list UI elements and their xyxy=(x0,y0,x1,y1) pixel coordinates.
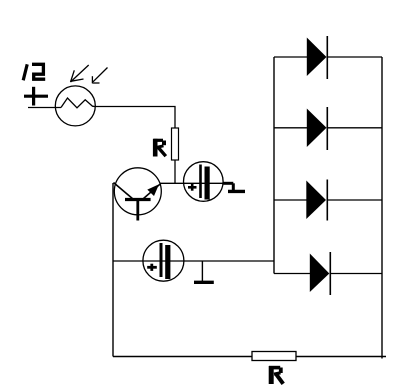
photoresistor LDR1 zigzag xyxy=(61,98,96,108)
wire transistor emitter to capacitor C1 xyxy=(160,182,224,184)
LED D3 triangle xyxy=(306,181,326,220)
LED D2 cathode bar xyxy=(326,107,328,150)
wire supply to LDR xyxy=(28,107,61,109)
capacitor C1 plus xyxy=(188,184,197,191)
LED D2 triangle xyxy=(307,109,327,148)
transistor Q1 circle xyxy=(114,168,161,215)
label 12 (supply voltage) xyxy=(23,64,45,80)
resistor R2 body xyxy=(252,352,296,361)
capacitor C2 plate 1 xyxy=(160,243,163,277)
light arrow 1 xyxy=(71,65,89,82)
capacitor C2 through line xyxy=(144,260,185,262)
LED D4 triangle xyxy=(310,254,330,293)
wire resistor R1 to base node xyxy=(174,160,176,184)
LED D1 cathode bar xyxy=(326,36,328,79)
capacitor C2 circle xyxy=(143,240,184,281)
wire C2 to LED anode rail xyxy=(184,260,274,262)
transistor Q1 base lead xyxy=(136,200,139,221)
wire D1 anode xyxy=(274,56,307,58)
ground (C1) xyxy=(228,190,245,193)
transistor Q1 emitter arrow xyxy=(147,184,159,196)
bottom wire xyxy=(113,356,386,358)
wire D2 cathode xyxy=(327,127,382,129)
wire D3 cathode xyxy=(327,199,382,201)
wire D4 cathode xyxy=(330,273,382,275)
transistor Q1 emitter line xyxy=(144,183,162,198)
capacitor C1 circle xyxy=(184,162,224,202)
LED cathode rail xyxy=(381,57,383,359)
capacitor C2 plus xyxy=(147,264,157,271)
resistor R1 body xyxy=(172,128,179,160)
capacitor C2 plate 2 xyxy=(165,245,170,279)
capacitor C1 plate 1 xyxy=(199,165,202,199)
LED D4 cathode bar xyxy=(329,252,331,295)
wire LDR to resistor R1 xyxy=(96,107,176,129)
wire C1 to ground xyxy=(224,183,234,190)
wire emitter node to capacitor C2 xyxy=(113,260,144,262)
LED anode rail xyxy=(273,57,275,274)
ground (C2) xyxy=(194,281,214,284)
capacitor C1 plate 2 xyxy=(205,167,210,200)
wire D4 anode xyxy=(274,273,310,275)
transistor Q1 collector line xyxy=(114,183,134,200)
transistor Q1 base bar xyxy=(125,198,151,201)
wire D2 anode xyxy=(274,127,307,129)
wire D3 anode xyxy=(274,199,307,201)
LED D3 cathode bar xyxy=(326,180,328,221)
resistor R2 label R xyxy=(269,366,283,384)
light arrow 2 xyxy=(92,68,107,84)
wire collector down left side xyxy=(112,183,114,357)
wire D1 cathode xyxy=(327,56,382,58)
LED D1 triangle xyxy=(307,38,327,77)
resistor R1 label R xyxy=(154,139,166,157)
photoresistor LDR1 circle xyxy=(55,86,95,126)
battery positive terminal + xyxy=(24,87,48,106)
ground (C2) lead xyxy=(201,261,203,281)
